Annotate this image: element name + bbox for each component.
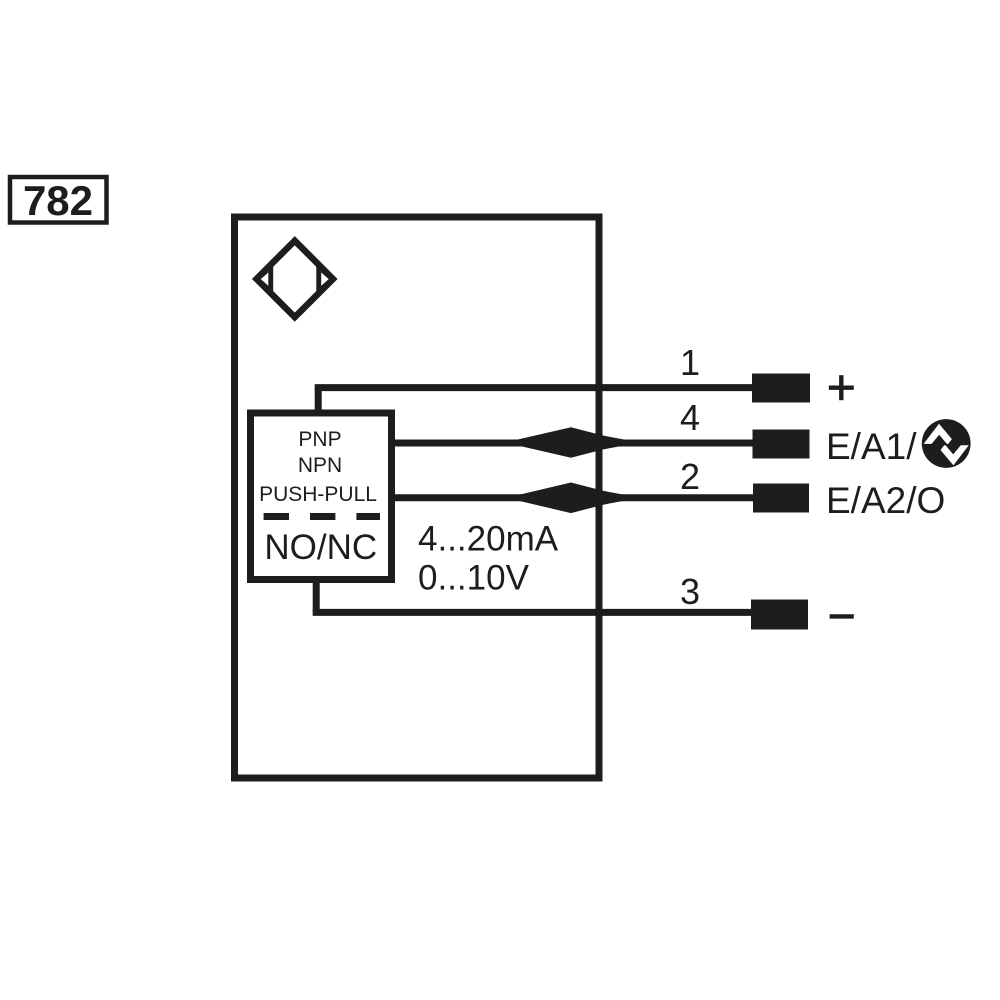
wire: pin1 horizontal to terminal 1	[315, 384, 754, 391]
function block box	[251, 413, 392, 580]
inductive sensor symbol: left triangle outline	[256, 270, 272, 289]
wire: pin3 horizontal to terminal 3	[313, 609, 754, 616]
svg-text:0...10V: 0...10V	[418, 559, 530, 598]
inductive sensor symbol: right triangle outline	[318, 270, 334, 289]
dashed separator line	[264, 513, 380, 520]
terminal block pin 2	[753, 484, 809, 513]
plus label for terminal 1	[829, 375, 854, 400]
minus label for terminal 3	[830, 614, 854, 618]
svg-text:E/A2/O: E/A2/O	[826, 480, 945, 521]
svg-text:2: 2	[680, 456, 700, 497]
terminal block pin 3	[751, 600, 808, 630]
wire: pin3 vertical stub from function block bottom	[313, 580, 320, 613]
svg-text:PNP: PNP	[298, 428, 341, 451]
inductive sensor symbol: right chord line	[316, 263, 321, 295]
svg-text:4...20mA: 4...20mA	[418, 520, 559, 559]
sensor body rectangle	[235, 217, 600, 778]
svg-text:NPN: NPN	[298, 454, 342, 477]
terminal block pin 1	[752, 374, 810, 403]
wire: pin1 vertical stub from function block top	[315, 388, 322, 413]
IO-Link style icon: black circle with swap chevrons	[922, 419, 971, 468]
inductive sensor symbol: left chord line	[269, 263, 274, 295]
inductive sensor symbol: diamond outline	[257, 241, 334, 318]
wire: pin2 horizontal from function block to terminal 2	[393, 494, 754, 501]
terminal block pin 4	[753, 430, 810, 459]
svg-text:E/A1/: E/A1/	[826, 426, 917, 467]
bidirectional signal arrow on wire 2	[506, 483, 640, 514]
svg-text:NO/NC: NO/NC	[264, 528, 377, 567]
wire: pin4 horizontal from function block to terminal 4	[393, 440, 754, 447]
svg-text:782: 782	[23, 177, 93, 224]
bidirectional signal arrow on wire 4	[505, 427, 640, 458]
svg-text:4: 4	[680, 397, 700, 438]
svg-text:1: 1	[680, 342, 700, 383]
svg-text:3: 3	[680, 571, 700, 612]
figure number box 782	[10, 177, 107, 223]
svg-text:PUSH-PULL: PUSH-PULL	[259, 483, 377, 506]
